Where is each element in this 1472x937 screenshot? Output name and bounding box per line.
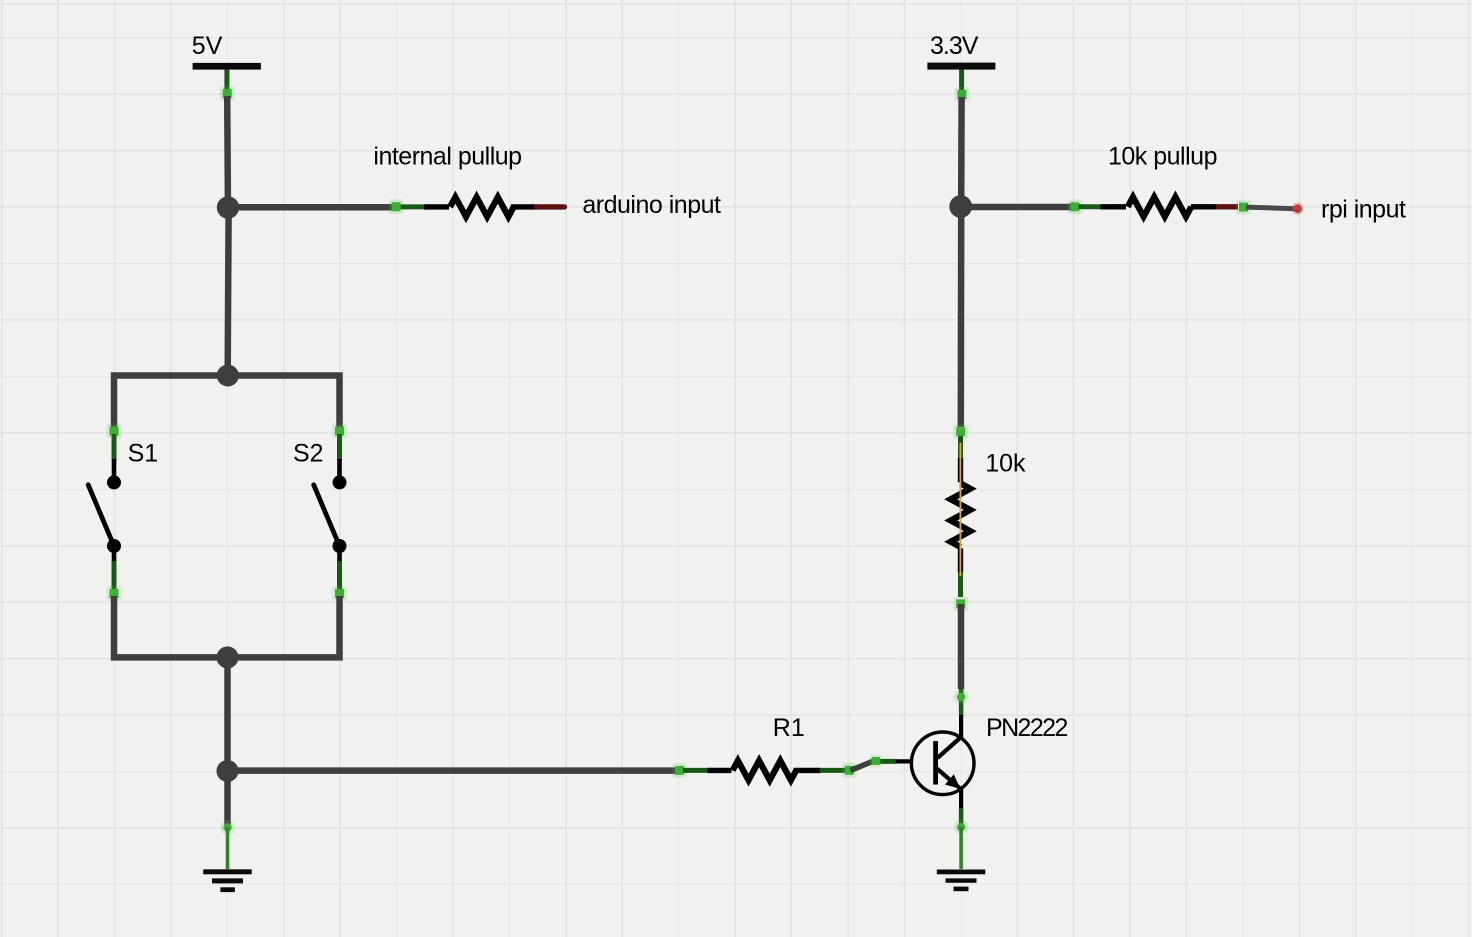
wire endpoint marker at 10k top pin <box>953 424 968 439</box>
node E junction <box>949 195 972 218</box>
power symbol 5V bar <box>193 63 261 70</box>
wire endpoint marker at emitter <box>954 820 969 835</box>
wire node E to 10k pullup <box>968 204 1074 211</box>
resistor 10k pullup <box>1079 197 1217 217</box>
wire 10k to collector <box>958 604 965 689</box>
wire endpoint marker at 5V pin <box>220 86 235 101</box>
resistor internal pullup <box>401 197 537 217</box>
svg-text:internal pullup: internal pullup <box>373 143 521 171</box>
wire node A to node B <box>224 214 231 370</box>
transistor Q1 base pin green <box>872 759 896 764</box>
svg-text:S2: S2 <box>293 440 324 468</box>
resistor 10k vertical <box>951 436 971 597</box>
svg-text:rpi input: rpi input <box>1321 196 1406 224</box>
wire emitter to ground <box>959 827 963 869</box>
wire endpoint marker at internal pullup left pin <box>389 199 404 214</box>
wire node E to 10k resistor <box>958 214 965 427</box>
wire endpoint marker at R1 right pin <box>842 763 857 778</box>
node D junction <box>217 760 239 782</box>
wire endpoint marker at S2 bottom <box>332 586 347 601</box>
wire endpoint marker at rpi stub <box>1236 200 1251 215</box>
wire arduino input red stub <box>536 204 564 209</box>
svg-text:10k: 10k <box>985 449 1026 477</box>
node B junction <box>217 365 239 387</box>
svg-text:3.3V: 3.3V <box>930 32 979 60</box>
node A junction <box>217 196 239 218</box>
wire node D to resistor R1 <box>234 767 676 774</box>
wire R1 to transistor base <box>851 761 873 770</box>
switch S2 <box>314 434 347 589</box>
switch S1 <box>88 434 121 589</box>
wire rpi input gray <box>1246 207 1295 209</box>
svg-text:arduino input: arduino input <box>582 191 721 219</box>
resistor R1 <box>683 761 846 781</box>
wire endpoint marker at S1 bottom <box>107 586 122 601</box>
wire rpi input red stub <box>1216 204 1238 209</box>
wire top rail of switch network <box>114 376 340 431</box>
wire endpoint marker at S2 top <box>332 424 347 439</box>
unconnected endpoint marker rpi input <box>1291 202 1304 215</box>
svg-text:PN2222: PN2222 <box>986 714 1067 742</box>
wire to left ground green <box>226 827 230 869</box>
wire endpoint marker at collector <box>954 689 969 704</box>
wire node A to internal pullup resistor <box>235 204 392 211</box>
transistor emitter pin green <box>959 808 964 824</box>
svg-text:R1: R1 <box>773 714 805 742</box>
wire 3.3V to node E <box>958 97 965 200</box>
wire bottom rail of switch network <box>114 596 340 657</box>
wire endpoint marker at R1 left pin <box>672 763 687 778</box>
svg-text:S1: S1 <box>128 440 159 468</box>
ground symbol right <box>937 870 986 892</box>
transistor Q1 PN2222 <box>896 715 974 810</box>
wire node D to left ground <box>224 778 231 826</box>
wire node C to node D <box>224 664 231 764</box>
node C junction <box>217 646 239 668</box>
transistor collector pin green <box>959 688 964 715</box>
power symbol 3.3V pin <box>959 70 964 93</box>
wire endpoint marker at 10k pullup left pin <box>1067 199 1082 214</box>
wire endpoint marker at 3.3V pin <box>954 87 969 102</box>
wire endpoint marker at 10k bottom pin <box>953 596 968 611</box>
power symbol 5V pin <box>224 70 229 93</box>
power symbol 3.3V bar <box>927 63 995 70</box>
svg-text:10k pullup: 10k pullup <box>1108 143 1217 171</box>
wire endpoint marker at base <box>869 755 882 768</box>
wire endpoint marker at S1 top <box>107 424 122 439</box>
wire 5V to node A <box>224 96 231 200</box>
svg-text:5V: 5V <box>192 32 223 60</box>
wire endpoint marker at left ground <box>220 820 235 835</box>
ground symbol left <box>203 869 252 892</box>
